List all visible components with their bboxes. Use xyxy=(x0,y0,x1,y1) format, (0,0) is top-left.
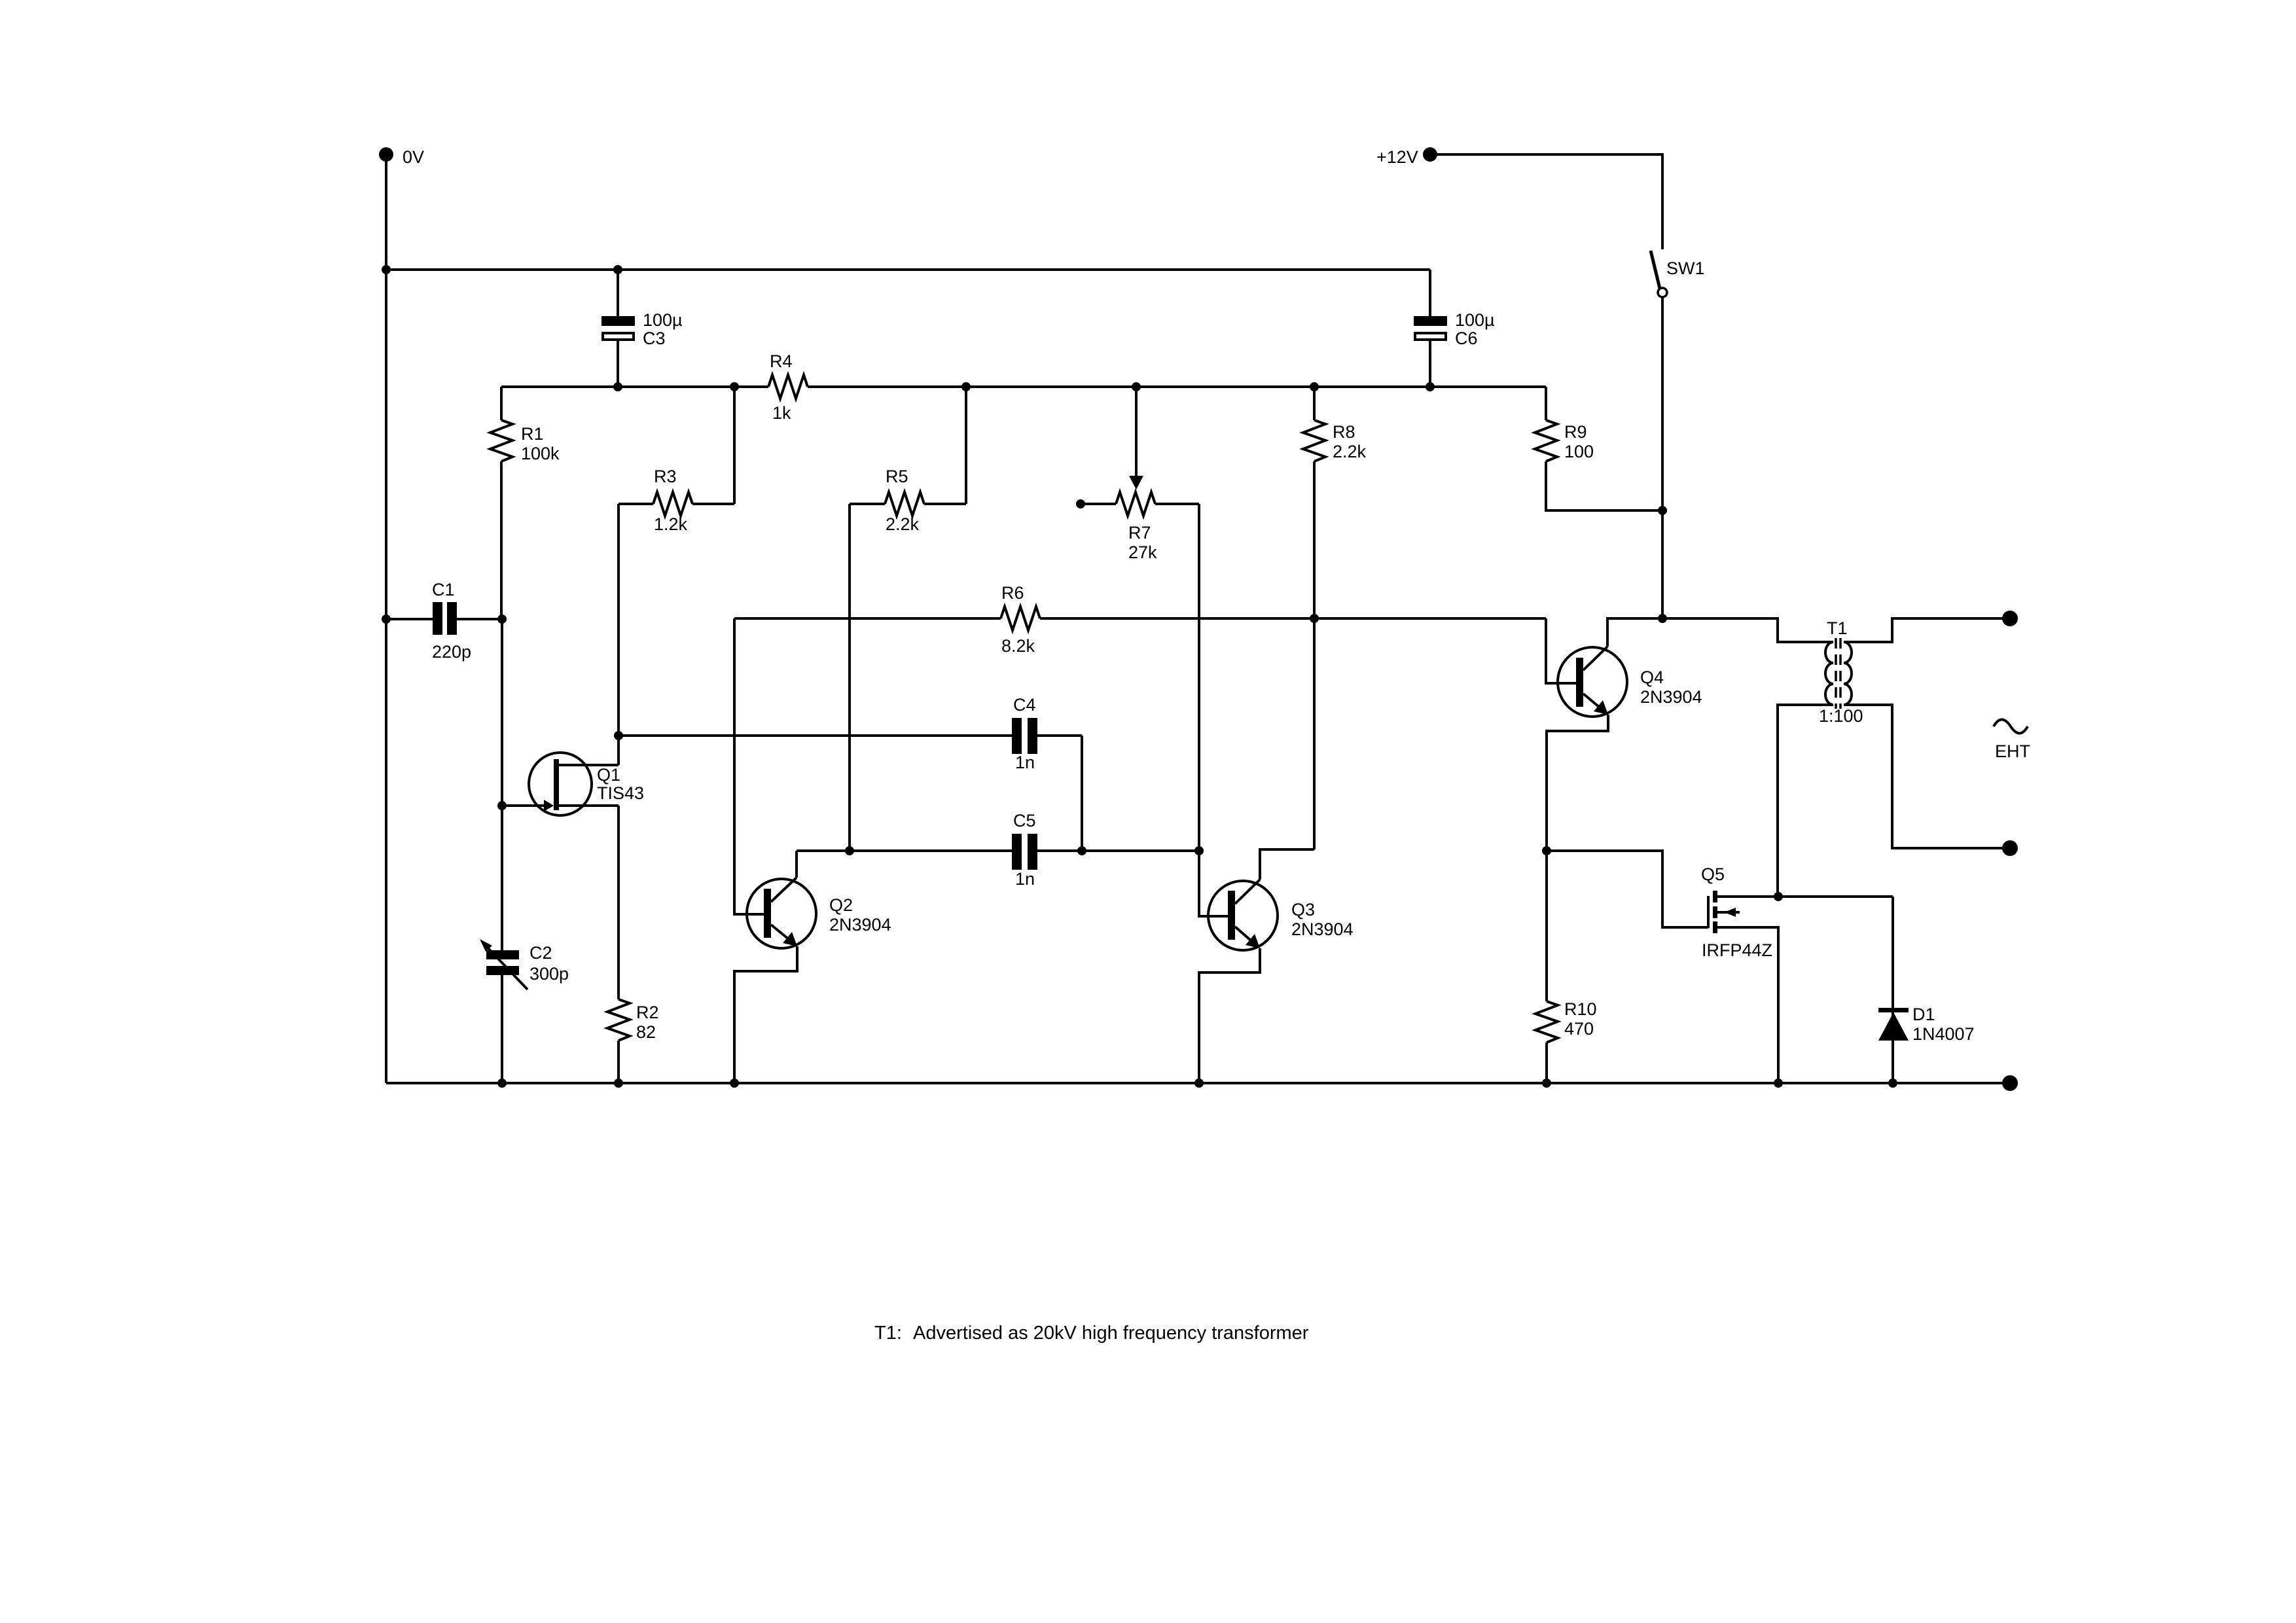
svg-text:2N3904: 2N3904 xyxy=(1640,687,1702,707)
svg-text:1:100: 1:100 xyxy=(1819,706,1863,726)
node junction R9/SW1 (2540,780) xyxy=(1658,506,1667,515)
svg-text:D1: D1 xyxy=(1912,1005,1935,1024)
svg-text:Q3: Q3 xyxy=(1291,900,1315,919)
svg-text:C5: C5 xyxy=(1013,811,1036,830)
svg-text:220p: 220p xyxy=(432,642,471,662)
resistor R9 100 xyxy=(1545,387,1547,420)
wire C4 right down to C5 row xyxy=(1081,736,1083,851)
svg-text:100: 100 xyxy=(1564,442,1594,461)
svg-text:27k: 27k xyxy=(1128,543,1157,562)
wire top rail y=412 xyxy=(386,268,1430,271)
wire R6 row left corner down to Q2 base xyxy=(734,618,764,914)
resistor R6 8.2k xyxy=(1001,607,1040,630)
node junction (1653,1300) xyxy=(1077,846,1086,855)
wire R6 row y=945 xyxy=(734,617,1001,620)
svg-text:Q5: Q5 xyxy=(1701,865,1725,884)
node junction R8 top (2008,591) xyxy=(1310,382,1319,391)
svg-text:100µ: 100µ xyxy=(1455,310,1495,330)
node junction Q1 emitter (767,1231) xyxy=(497,801,507,810)
resistor R2 82 xyxy=(607,999,630,1041)
svg-text:R6: R6 xyxy=(1001,583,1024,603)
wire Q1 B1 down to R2 xyxy=(617,806,620,999)
svg-text:2.2k: 2.2k xyxy=(886,514,920,534)
svg-text:1N4007: 1N4007 xyxy=(1912,1024,1975,1044)
wire R7 right vertical down to C5 row and Q3 base xyxy=(1199,504,1228,916)
svg-text:1n: 1n xyxy=(1015,753,1035,772)
node junction (1298,1300) xyxy=(845,846,854,855)
node junction (945,1124) xyxy=(614,731,623,740)
svg-text:Q1: Q1 xyxy=(597,765,620,785)
node ground right terminal xyxy=(2002,1075,2018,1091)
wire R6 right corner down to Q4 base xyxy=(1546,618,1576,683)
node junction C3 bottom (944,591) xyxy=(613,382,622,391)
svg-text:470: 470 xyxy=(1564,1019,1594,1039)
resistor R10 470 xyxy=(1545,851,1548,1001)
transistor Q5 IRFP44Z (MOSFET) xyxy=(1707,896,1710,928)
capacitor C6 100µ xyxy=(1429,270,1431,316)
node +12V terminal xyxy=(1423,147,1437,162)
svg-text:R2: R2 xyxy=(636,1003,659,1022)
svg-text:8.2k: 8.2k xyxy=(1001,636,1035,656)
svg-text:1k: 1k xyxy=(772,403,791,423)
wire bottom rail y=1655 xyxy=(386,1082,2010,1084)
svg-text:C1: C1 xyxy=(432,580,455,599)
node junction (2892,1655) xyxy=(1888,1079,1897,1088)
svg-text:R9: R9 xyxy=(1564,422,1587,442)
svg-text:R10: R10 xyxy=(1564,999,1597,1019)
resistor R5 2.2k xyxy=(850,503,885,505)
node junction Q5 drain / T1 (2717,1370) xyxy=(1774,892,1783,901)
node junction (1122,1655) xyxy=(730,1079,739,1088)
svg-text:TIS43: TIS43 xyxy=(597,783,644,803)
wire R5 left vertical down to C5 row xyxy=(848,504,851,851)
node EHT ac symbol xyxy=(1994,720,2028,734)
node 0V terminal xyxy=(379,147,393,162)
node EHT top terminal xyxy=(2002,611,2018,626)
wire Q4 collector up to SW1 node xyxy=(1607,618,1662,647)
svg-text:IRFP44Z: IRFP44Z xyxy=(1702,940,1772,960)
transistor Q3 2N3904 xyxy=(1208,881,1278,950)
svg-text:C6: C6 xyxy=(1455,329,1478,348)
svg-text:2N3904: 2N3904 xyxy=(829,915,891,935)
node junction (2363,1300) xyxy=(1542,846,1551,855)
node EHT bottom terminal xyxy=(2002,840,2018,856)
wire Q3 collector up and right to R8 column xyxy=(1260,849,1314,880)
node junction (1832,1300) xyxy=(1194,846,1204,855)
switch SW1 xyxy=(1651,251,1660,289)
node junction R6/R8 (2008,945) xyxy=(1310,614,1319,623)
node junction (944,412) xyxy=(613,265,622,274)
capacitor C1 220p xyxy=(386,618,433,620)
wire mid rail y=591 xyxy=(501,385,768,388)
node junction (945,1655) xyxy=(614,1079,623,1088)
transistor Q2 2N3904 xyxy=(747,879,816,948)
svg-text:T1: T1 xyxy=(1827,618,1848,638)
svg-text:SW1: SW1 xyxy=(1666,259,1705,278)
svg-text:C2: C2 xyxy=(529,943,552,963)
resistor R8 2.2k xyxy=(1313,387,1316,420)
svg-text:100k: 100k xyxy=(521,444,560,463)
svg-text:R7: R7 xyxy=(1128,523,1151,543)
svg-text:Advertised as 20kV high freque: Advertised as 20kV high frequency transf… xyxy=(913,1323,1309,1344)
wire +12V to switch xyxy=(1430,154,1662,249)
resistor R3 1.2k xyxy=(692,503,734,505)
wire Q3 emitter down-left to rail xyxy=(1199,948,1260,1083)
node junction (1122,591) xyxy=(730,382,739,391)
svg-text:1n: 1n xyxy=(1015,869,1035,889)
svg-text:0V: 0V xyxy=(403,147,424,167)
svg-text:C4: C4 xyxy=(1013,695,1036,715)
svg-text:T1:: T1: xyxy=(874,1323,902,1344)
transistor Q4 2N3904 xyxy=(1558,647,1627,717)
wire R1 column down to Q1 emitter and C2 xyxy=(501,619,503,950)
svg-text:R1: R1 xyxy=(521,424,544,444)
capacitor C4 1n xyxy=(619,734,1012,737)
transistor Q1 TIS43 (UJT) xyxy=(529,753,592,815)
svg-text:R8: R8 xyxy=(1333,422,1355,442)
wire C5 row y=1300 xyxy=(797,849,1012,852)
node junction (590,412) xyxy=(382,265,391,274)
node junction C1 right (767,944) xyxy=(497,615,507,624)
svg-text:Q2: Q2 xyxy=(829,895,853,915)
svg-text:EHT: EHT xyxy=(1995,741,2030,761)
svg-text:2N3904: 2N3904 xyxy=(1291,919,1354,939)
node junction (1832,1655) xyxy=(1194,1079,1204,1088)
capacitor C5 1n xyxy=(1012,834,1022,870)
svg-text:100µ: 100µ xyxy=(643,310,683,330)
node junction R7 top (1736,591) xyxy=(1132,382,1141,391)
node junction C1 left (590,944) xyxy=(382,615,391,624)
wire Q4 emitter down-left to node column xyxy=(1547,715,1608,851)
node junction C6 bottom (2185,591) xyxy=(1426,382,1435,391)
svg-text:R5: R5 xyxy=(886,467,908,486)
svg-text:R3: R3 xyxy=(654,467,677,486)
capacitor C3 xyxy=(617,270,619,316)
wire R3 right vertical from rail xyxy=(733,387,736,504)
wire gate feed to Q5 xyxy=(1547,851,1708,927)
diode D1 1N4007 xyxy=(1892,897,1894,1083)
resistor R4 1k xyxy=(768,375,808,399)
resistor R7 27k potentiometer xyxy=(1076,499,1085,508)
transformer T1 1:100 xyxy=(1662,618,1833,642)
wire Q2 collector up to C5 row xyxy=(795,851,798,878)
node junction (767,1655) xyxy=(497,1079,507,1088)
wire Q1 column x=945 xyxy=(617,504,620,765)
wire Q2 emitter down-left to rail xyxy=(734,946,797,1083)
svg-text:C3: C3 xyxy=(643,329,666,348)
node junction (2363,1655) xyxy=(1542,1079,1551,1088)
node junction (1476,591) xyxy=(961,382,971,391)
svg-text:Q4: Q4 xyxy=(1640,668,1664,687)
resistor R1 100k xyxy=(500,387,503,420)
wire R5 right vertical up to rail xyxy=(965,387,967,504)
svg-text:R4: R4 xyxy=(770,351,793,371)
svg-text:82: 82 xyxy=(636,1022,656,1042)
node junction (2540,945) xyxy=(1658,614,1667,623)
svg-text:2.2k: 2.2k xyxy=(1333,442,1367,461)
svg-text:1.2k: 1.2k xyxy=(654,514,688,534)
wire 0V vertical left column xyxy=(385,154,387,1083)
svg-text:300p: 300p xyxy=(529,964,569,984)
svg-text:+12V: +12V xyxy=(1376,147,1418,167)
node junction (2717,1655) xyxy=(1774,1079,1783,1088)
capacitor C2 300p variable xyxy=(486,950,519,959)
